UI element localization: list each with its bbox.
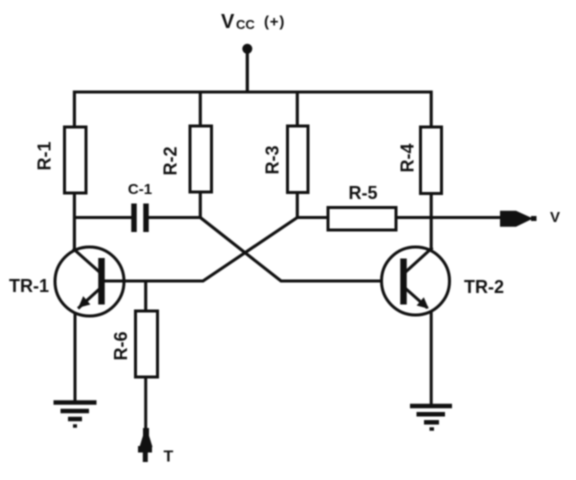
wire top supply bus: [73, 90, 433, 93]
svg-text:C-1: C-1: [128, 181, 152, 198]
svg-text:R-5: R-5: [348, 183, 377, 203]
resistor R4: [398, 127, 442, 194]
wire bus to R-4 top: [430, 91, 433, 128]
wire R-6 bottom to trigger input: [144, 377, 147, 430]
svg-text:CC: CC: [236, 17, 255, 32]
trigger input connector T: [138, 426, 153, 462]
wire TR-2 emitter to ground: [430, 312, 433, 406]
wire node A to C-1 left: [73, 216, 132, 219]
resistor R3: [263, 126, 309, 193]
transistor TR2: [382, 247, 450, 315]
output arrow: [500, 211, 537, 227]
wire TR-1 emitter to ground: [74, 312, 77, 403]
resistor R5: [328, 183, 396, 230]
resistor R2: [161, 126, 212, 192]
svg-text:(+): (+): [264, 14, 285, 31]
svg-text:R-2: R-2: [161, 146, 181, 175]
wire diagonal node B to TR-2 base run: [200, 218, 383, 282]
node Vcc terminal dot: [242, 44, 252, 54]
ground TR-2 emitter: [410, 406, 452, 429]
transistor TR1: [55, 247, 124, 316]
svg-text:R-6: R-6: [111, 331, 131, 360]
wire R-3 bottom to node C: [296, 193, 299, 219]
wire diagonal node C to TR-1 base run: [104, 218, 297, 282]
resistor R1: [35, 127, 87, 193]
wire bus to R-3 top: [296, 91, 299, 127]
resistor R6: [111, 311, 158, 377]
ground TR-1 emitter: [54, 403, 97, 427]
svg-text:TR-1: TR-1: [9, 276, 49, 296]
wire R-4 bottom to TR-2 collector: [430, 194, 433, 251]
wire node C to R-5 left: [296, 216, 329, 219]
wire R-2 bottom to node B: [199, 192, 202, 219]
svg-text:V: V: [550, 209, 560, 226]
wire bus to R-1 top: [73, 91, 76, 128]
capacitor C1: [128, 181, 152, 232]
wire Vcc stem: [246, 48, 249, 93]
svg-text:R-3: R-3: [263, 145, 283, 174]
svg-text:T: T: [164, 449, 174, 466]
svg-text:R-1: R-1: [35, 141, 55, 170]
wire C-1 right to node B: [149, 216, 202, 219]
wire R-6 tap from TR-1 base line: [144, 280, 147, 312]
svg-text:R-4: R-4: [398, 143, 418, 172]
svg-text:V: V: [221, 11, 235, 33]
svg-text:TR-2: TR-2: [464, 277, 504, 297]
wire bus to R-2 top: [199, 91, 202, 127]
wire R-5 right to output: [395, 216, 504, 219]
label Vcc (+): [221, 11, 285, 33]
wire R-1 bottom to TR-1 collector: [73, 193, 76, 251]
